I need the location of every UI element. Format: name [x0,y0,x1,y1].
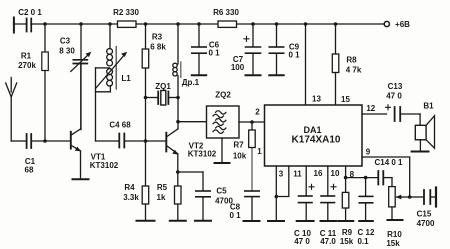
node rail-C6 [197,22,201,26]
svg-text:15k: 15k [386,239,400,248]
node rail-L1 [108,22,112,26]
wire pin13 [304,22,308,26]
svg-text:0.1: 0.1 [357,237,369,246]
wire ZQ2-pin2 [239,121,265,123]
svg-text:B1: B1 [423,102,434,111]
capacitor C1 [27,134,32,148]
filter ZQ2 [207,106,240,138]
ground B1 [412,151,429,153]
wire C1 to VT1 base [32,140,70,142]
node VT2 collector [176,120,180,124]
svg-text:2: 2 [255,108,260,117]
svg-text:+6В: +6В [395,20,410,29]
transistor VT2 [166,122,178,172]
svg-text:10k: 10k [233,152,247,161]
svg-text:L1: L1 [121,74,131,83]
svg-text:R4: R4 [124,183,135,192]
capacitor C8 [245,191,259,220]
capacitor C12 [359,178,373,220]
node rail-R8 [334,22,338,26]
ground VT1 [73,178,89,180]
capacitor C13 electrolytic [386,105,421,121]
IC DA1 [265,105,363,166]
resistor R2 [118,21,137,27]
wire collector-ZQ2 [178,121,207,123]
resistor R1 [42,24,49,141]
svg-text:100: 100 [231,63,245,72]
svg-text:3.3k: 3.3k [123,193,139,202]
ground C10 [297,220,314,222]
ground C6 [192,74,206,76]
svg-text:13: 13 [312,95,321,104]
pin 10 wire + capacitor C11 [321,166,336,220]
ground ZQ2 [215,162,230,164]
svg-text:KT3102: KT3102 [90,161,119,170]
svg-text:R1: R1 [21,52,32,61]
capacitor C3 variable [71,24,92,130]
svg-text:C5: C5 [216,187,227,196]
antenna [6,78,17,142]
node C12 [364,176,368,180]
svg-text:6 8k: 6 8k [150,43,166,52]
svg-text:15: 15 [341,95,350,104]
capacitor C14 [378,171,392,185]
svg-text:8 30: 8 30 [59,47,75,56]
speaker B1 [415,114,434,150]
svg-text:R3: R3 [152,33,163,42]
wire C4 to VT2 base [125,140,166,142]
svg-text:R8: R8 [346,56,357,65]
svg-text:KT3102: KT3102 [188,150,217,159]
transistor VT1 [71,63,81,178]
svg-text:C14 0 1: C14 0 1 [374,158,403,167]
pin 9 wire [362,157,410,197]
resistor R7 [249,122,256,190]
resistor R6 [218,21,237,27]
node VT2 emitter [176,170,180,174]
svg-text:4 7k: 4 7k [346,66,362,75]
svg-text:C4 68: C4 68 [109,121,131,130]
svg-text:47 0: 47 0 [294,237,310,246]
svg-text:ZQ1: ZQ1 [155,82,171,91]
wire tap-C4 [96,140,119,142]
node R7 top [250,120,254,124]
svg-text:3: 3 [279,170,284,179]
svg-text:16: 16 [314,169,323,178]
wire base VT1 [11,140,25,142]
svg-text:0 1: 0 1 [288,51,300,60]
svg-text:R6 330: R6 330 [213,8,239,17]
resistor R8 [332,24,339,105]
capacitor C4 [119,134,124,148]
svg-text:11: 11 [293,170,302,179]
svg-text:R7: R7 [233,141,244,150]
svg-text:47 0: 47 0 [386,92,402,101]
svg-text:0 1: 0 1 [229,211,241,220]
node rail-C3 [79,22,83,26]
svg-text:4700: 4700 [417,219,435,228]
svg-text:12: 12 [366,104,375,113]
svg-text:Др.1: Др.1 [182,78,200,87]
node base-R1 [43,139,47,143]
svg-text:ZQ2: ZQ2 [215,91,231,100]
ground R10 [388,219,403,221]
ground C9 [269,74,283,76]
resistor R5 [175,172,182,220]
capacitor C15 [410,188,436,207]
svg-text:R5: R5 [157,183,168,192]
pin 8 wire [345,166,347,178]
svg-text:C 12: C 12 [358,228,375,237]
resistor R9 [342,178,349,220]
capacitor C6 [192,24,206,74]
ground R5 [170,220,186,222]
node base2 junction [144,139,148,143]
svg-text:1: 1 [257,147,262,156]
node rail-R1 [43,22,47,26]
svg-text:10: 10 [331,169,340,178]
quartz ZQ1 [144,91,180,106]
pin 16 wire + capacitor C10 [299,166,315,220]
resistor R4 [142,141,149,220]
svg-text:C13: C13 [388,82,403,91]
terminal +6V [384,21,389,26]
svg-text:C15: C15 [417,210,432,219]
wire top rail [14,23,386,25]
svg-text:1k: 1k [157,193,166,202]
node rail-choke [176,22,180,26]
ground C5 [195,220,211,222]
svg-text:0 1: 0 1 [208,49,220,58]
pin 3 wire [275,166,277,220]
ground pin3 [268,220,284,222]
svg-text:K174XA10: K174XA10 [292,134,341,145]
ground C7 [246,74,261,76]
svg-text:15k: 15k [340,237,354,246]
svg-text:9: 9 [366,148,371,157]
svg-text:R10: R10 [387,230,402,239]
inductor Dr1 choke [173,24,181,122]
wire pin8-C14 [346,177,378,179]
wire emitter-C5 [178,171,203,173]
pin 12 wire [362,113,387,115]
svg-text:C3: C3 [60,37,71,46]
svg-text:47.0: 47.0 [320,237,336,246]
pin 11 wire [276,166,289,197]
capacitor C7 electrolytic [244,24,261,74]
svg-text:68: 68 [25,166,34,175]
svg-text:R9: R9 [342,228,353,237]
wire ZQ2 ground stub [221,138,223,162]
capacitor C9 [269,24,283,74]
node rail-R3 [144,22,148,26]
ground R9 [339,220,354,222]
capacitor C2 [14,18,31,33]
ground C12 [359,220,373,222]
resistor R10 variable [389,178,410,219]
svg-text:C2 0 1: C2 0 1 [18,8,42,17]
ground C11 [321,220,337,222]
node rail-C7 [251,22,255,26]
ground R4 [137,220,155,222]
node rail-C9 [275,22,279,26]
inductor L1 [96,24,128,141]
capacitor C5 [196,172,210,220]
svg-text:R2 330: R2 330 [113,8,139,17]
svg-text:270k: 270k [18,61,36,70]
resistor R3 [142,24,149,141]
ground C8 [244,220,260,222]
